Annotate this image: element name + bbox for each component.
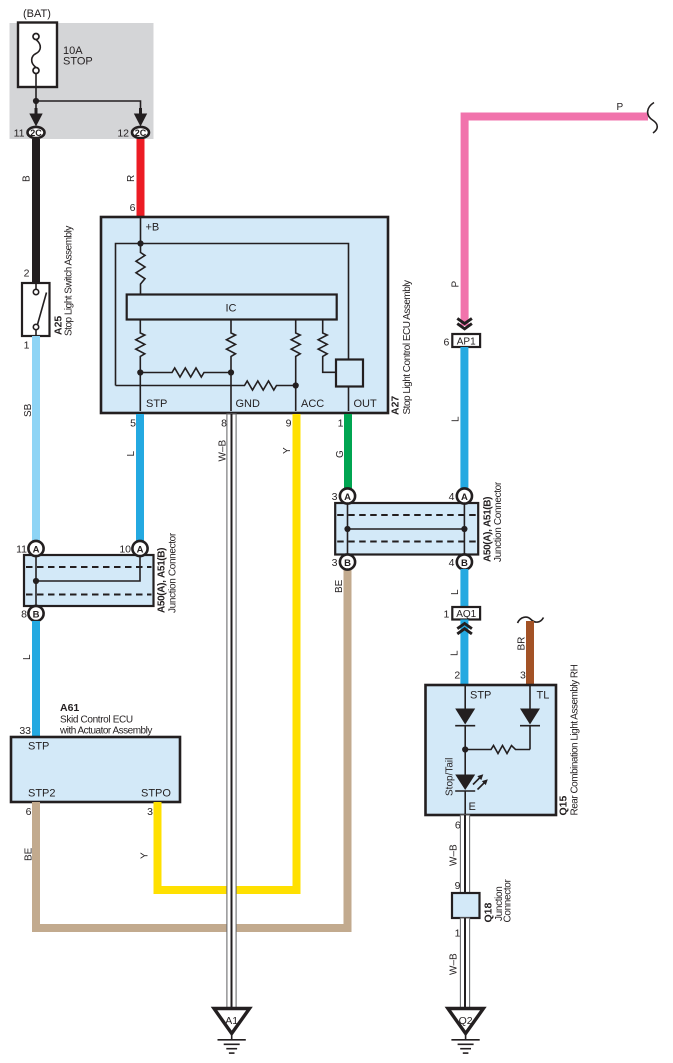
svg-text:6: 6 [130, 202, 136, 214]
wire B black [32, 139, 40, 284]
svg-text:4: 4 [449, 557, 455, 569]
svg-text:10: 10 [119, 544, 131, 556]
svg-text:SB: SB [23, 403, 34, 417]
battery feed shading [10, 23, 154, 139]
wire L blue pin5 [136, 414, 144, 542]
svg-text:4: 4 [449, 491, 455, 503]
ECU A27 box [101, 217, 388, 413]
connector AP1 pin 6 [452, 334, 480, 347]
ground A1 [214, 1009, 250, 1034]
pin 10 A [132, 541, 147, 556]
svg-text:Skid Control ECU: Skid Control ECU [60, 715, 133, 726]
resistor R1 (+B pull) [136, 244, 145, 295]
resistor R5 (ACC leg) [291, 320, 300, 412]
svg-text:L: L [22, 654, 33, 660]
svg-text:IC: IC [226, 303, 237, 315]
svg-text:BE: BE [334, 579, 345, 593]
svg-text:11: 11 [16, 544, 27, 556]
svg-text:STOP: STOP [63, 56, 93, 68]
resistor R4 (horizontal STP-GND) [140, 368, 231, 377]
wire R red [137, 139, 145, 217]
wire inside right connector [347, 504, 349, 554]
wire L blue AP1 to junction [460, 347, 468, 489]
svg-text:Stop Light Control ECU Assembl: Stop Light Control ECU Assembly [402, 280, 413, 415]
svg-text:6: 6 [443, 336, 449, 348]
svg-text:2C: 2C [135, 128, 147, 138]
svg-text:1: 1 [443, 609, 449, 621]
wire internal supply loop [116, 244, 349, 386]
svg-text:2: 2 [454, 670, 460, 682]
resistor R2 (STP leg) [136, 320, 145, 412]
resistor R3 (GND leg) [227, 320, 236, 412]
svg-text:A50(A), A51(B): A50(A), A51(B) [157, 548, 168, 613]
svg-text:A: A [33, 545, 40, 556]
arrow into connector 12 [139, 108, 142, 116]
svg-text:5: 5 [130, 418, 136, 430]
svg-text:Stop/Tail: Stop/Tail [445, 758, 456, 796]
resistor R6 (horizontal loop-ACC) [116, 381, 296, 390]
svg-text:P: P [617, 102, 624, 113]
svg-text:33: 33 [19, 725, 31, 737]
svg-text:8: 8 [21, 609, 27, 621]
svg-text:Q15: Q15 [558, 795, 570, 815]
svg-text:Junction Connector: Junction Connector [168, 532, 179, 613]
wire L blue to A61 [32, 621, 40, 737]
svg-text:AP1: AP1 [457, 336, 476, 347]
ground Q2 [448, 1009, 484, 1034]
svg-text:A: A [137, 545, 144, 556]
svg-text:3: 3 [332, 491, 338, 503]
diode D1 stop [455, 709, 475, 725]
connector AQ1 pin 1 [452, 607, 480, 620]
svg-text:(BAT): (BAT) [23, 8, 51, 20]
svg-text:P: P [451, 281, 462, 288]
arrow chevrons into AP1 [457, 318, 472, 323]
svg-text:R: R [126, 175, 137, 182]
LED stop/tail [455, 775, 475, 791]
svg-text:L: L [126, 451, 137, 457]
svg-text:B: B [33, 610, 40, 621]
svg-text:Rear Combination Light Assembl: Rear Combination Light Assembly RH [570, 664, 581, 815]
resistor R8 (lamp) [465, 746, 530, 754]
connector 2C pin 11 [28, 127, 45, 138]
arrow into connector 11 [35, 108, 38, 116]
svg-text:Junction Connector: Junction Connector [493, 481, 504, 562]
svg-text:1: 1 [455, 927, 461, 939]
wire LED leg [464, 750, 466, 775]
svg-text:Connector: Connector [503, 878, 514, 922]
wire TL leg inside Q15 [529, 686, 531, 709]
svg-text:AQ1: AQ1 [456, 609, 476, 620]
svg-text:W–B: W–B [449, 844, 460, 866]
svg-text:B: B [461, 558, 468, 569]
wire W-B Q18 to ground [460, 918, 469, 1008]
arrow chevrons out of AQ1 [457, 624, 472, 629]
svg-text:W–B: W–B [218, 440, 229, 462]
svg-text:A50(A), A51(B): A50(A), A51(B) [483, 497, 494, 562]
svg-text:A: A [344, 492, 351, 503]
svg-text:1: 1 [338, 418, 344, 430]
svg-text:G: G [335, 450, 346, 458]
svg-text:W–B: W–B [449, 953, 460, 975]
wire node to right branch [36, 101, 141, 110]
wire L blue AQ1 to Q15 [460, 620, 468, 686]
svg-text:3: 3 [332, 557, 338, 569]
wire Y yellow STPO to ACC [158, 414, 297, 890]
svg-text:+B: +B [146, 222, 160, 234]
wire break symbol P [648, 103, 658, 134]
svg-text:A1: A1 [225, 1015, 238, 1027]
svg-text:2: 2 [24, 268, 30, 280]
svg-text:Q2: Q2 [459, 1015, 473, 1027]
svg-text:B: B [344, 558, 351, 569]
pin 4 A [457, 488, 472, 503]
svg-text:GND: GND [236, 398, 261, 410]
svg-text:Y: Y [282, 447, 293, 454]
svg-text:B: B [22, 175, 33, 182]
svg-text:OUT: OUT [354, 398, 378, 410]
wire fuse to node [35, 74, 37, 102]
wire P pink [465, 117, 648, 327]
svg-text:9: 9 [286, 418, 292, 430]
wire E leg [464, 791, 466, 814]
junction connector Q18 [452, 893, 480, 918]
node GND junction [228, 369, 234, 375]
node STP junction [137, 369, 143, 375]
wire W-B Q15 to Q18 [460, 815, 469, 893]
wire BE beige STP2 to junction [36, 568, 348, 928]
connector 2C pin 12 [132, 127, 149, 138]
svg-text:A27: A27 [390, 396, 402, 415]
svg-text:3: 3 [520, 670, 526, 682]
fuse F1 10A STOP [18, 23, 57, 88]
diode D2 tail [520, 709, 540, 725]
IC U1 [127, 295, 337, 320]
svg-text:E: E [469, 801, 476, 813]
svg-text:STP: STP [146, 398, 167, 410]
wire inside left connector [35, 556, 37, 606]
resistor R7 (base leg) [318, 320, 336, 373]
svg-text:STP2: STP2 [28, 788, 56, 800]
node lamp junction [462, 746, 468, 752]
svg-text:BR: BR [517, 637, 528, 651]
svg-text:STP: STP [28, 741, 49, 753]
svg-text:with Actuator Assembly: with Actuator Assembly [59, 726, 152, 737]
wire W-B ground from GND pin8 [227, 414, 236, 1008]
svg-text:STPO: STPO [141, 788, 171, 800]
svg-text:L: L [451, 416, 462, 422]
svg-text:L: L [450, 589, 461, 595]
svg-text:Y: Y [140, 852, 151, 859]
svg-text:Stop Light Switch Assembly: Stop Light Switch Assembly [64, 226, 75, 336]
pin 8 B [28, 606, 43, 621]
node +B junction [137, 240, 143, 246]
wire L blue junction to AQ1 [460, 569, 468, 607]
svg-text:3: 3 [147, 806, 153, 818]
svg-text:ACC: ACC [301, 398, 324, 410]
svg-text:2C: 2C [30, 128, 42, 138]
svg-text:TL: TL [537, 690, 550, 702]
node ACC junction [293, 382, 299, 388]
pin 11 A [28, 541, 43, 556]
wire node down [35, 101, 37, 110]
svg-text:STP: STP [470, 690, 491, 702]
pin 3 B [340, 554, 355, 569]
svg-text:L: L [450, 650, 461, 656]
pin 3 A [340, 488, 355, 503]
wire G green OUT to junction [344, 414, 352, 489]
wire SB light blue [32, 336, 40, 542]
svg-text:BE: BE [24, 847, 35, 861]
svg-text:6: 6 [26, 806, 32, 818]
junction connector A50(A) A51(B) left [24, 555, 154, 606]
pin 4 B [457, 554, 472, 569]
wire BR brown [526, 621, 534, 686]
svg-text:11: 11 [14, 128, 25, 140]
switch A25 [22, 283, 50, 336]
svg-text:1: 1 [24, 340, 30, 352]
svg-text:8: 8 [221, 418, 227, 430]
svg-text:A61: A61 [60, 702, 79, 714]
wire break symbol BR [518, 617, 544, 623]
ECU A61 box [11, 737, 180, 802]
node junction under fuse [33, 98, 39, 104]
wire +B entry [140, 218, 142, 244]
svg-text:A: A [461, 492, 468, 503]
junction connector A50(A) A51(B) right [335, 503, 478, 555]
wire STP leg inside Q15 [464, 686, 466, 709]
wire OUT leg [348, 387, 350, 412]
svg-text:12: 12 [117, 128, 129, 140]
transistor Q1 output driver [336, 360, 363, 387]
svg-text:Q18: Q18 [483, 902, 495, 922]
svg-text:9: 9 [455, 880, 461, 892]
lamp assembly Q15 box [426, 685, 557, 815]
